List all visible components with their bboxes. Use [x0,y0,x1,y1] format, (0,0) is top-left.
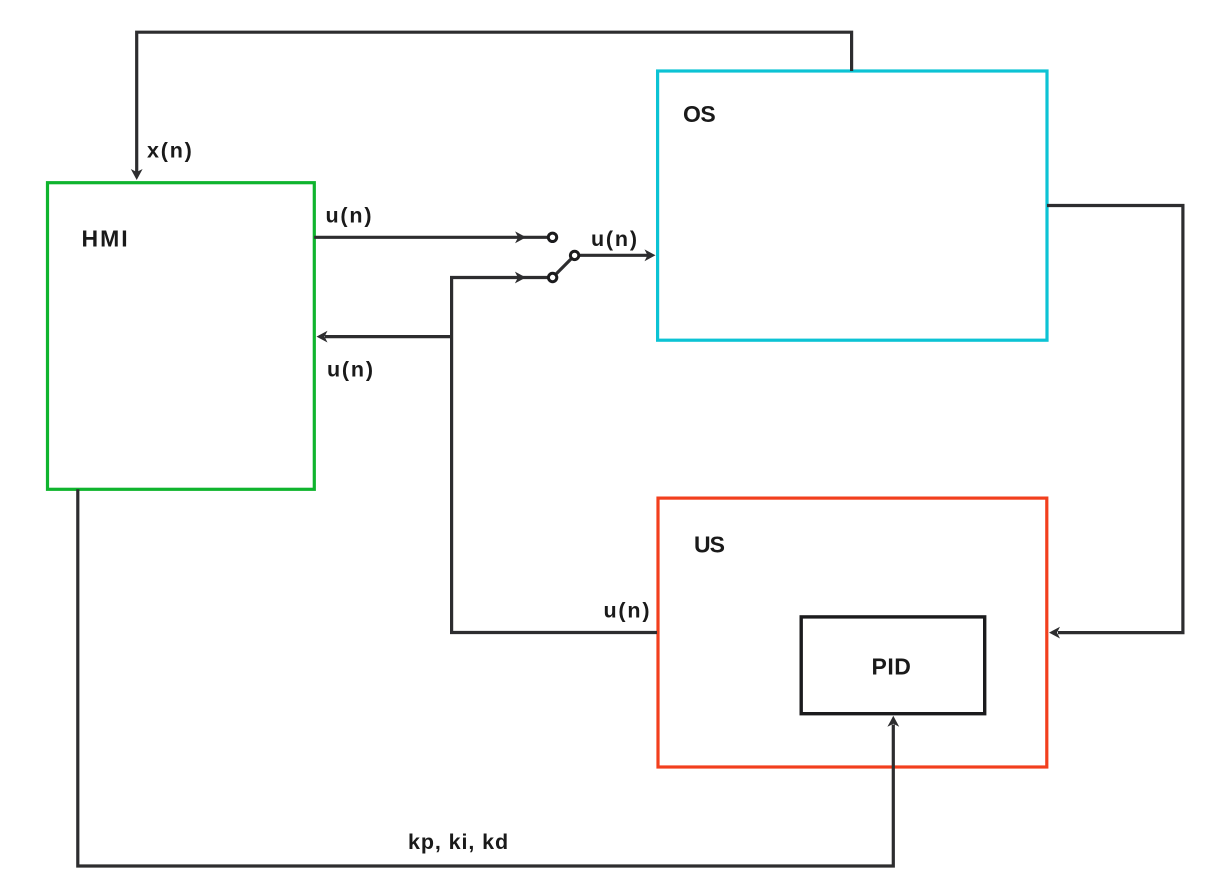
svg-text:u(n): u(n) [604,599,652,623]
wire x(n) feedback: OS top to HMI top [131,32,852,180]
box HMI [48,183,315,490]
svg-text:kp, ki, kd: kp, ki, kd [408,830,509,854]
box OS [658,71,1047,340]
svg-text:u(n): u(n) [591,227,639,251]
wire OS right loop to US right [1047,206,1183,639]
switch contact circle middle [570,251,578,259]
svg-text:u(n): u(n) [326,204,374,228]
switch contact circle bottom [548,273,556,281]
wire switch output to OS left [575,249,656,261]
svg-text:x(n): x(n) [147,139,194,163]
wire branch into HMI right side [317,331,452,343]
svg-text:OS: OS [683,101,715,127]
svg-text:PID: PID [872,653,912,679]
svg-text:u(n): u(n) [327,357,375,381]
switch contact circle top [548,233,556,241]
box US [658,498,1047,767]
box PID [801,617,985,714]
switch blade [553,255,575,277]
svg-text:HMI: HMI [82,225,130,251]
wire US output trunk: US left up to switch bottom contact [452,272,657,633]
wire HMI bottom to PID bottom [78,489,899,866]
svg-text:US: US [694,531,725,557]
wire HMI right to switch top contact [314,231,552,243]
